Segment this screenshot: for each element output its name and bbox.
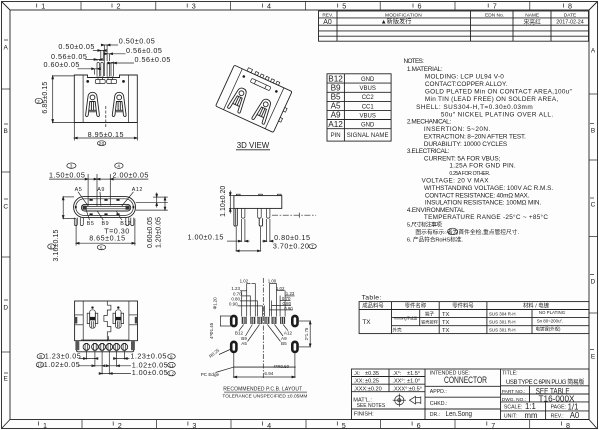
svg-text:0.25A FOR OTHER.: 0.25A FOR OTHER. <box>449 171 490 177</box>
dim 2*1.75 right <box>299 321 311 347</box>
svg-text:Min TIN (LEAD FREE) ON SOLDER: Min TIN (LEAD FREE) ON SOLDER AREA, <box>425 96 559 103</box>
svg-text:2.00±0.05: 2.00±0.05 <box>113 170 149 179</box>
svg-text:A12: A12 <box>284 330 293 335</box>
svg-text:APPD.:: APPD.: <box>430 389 447 395</box>
svg-text:1.23±0.05: 1.23±0.05 <box>130 352 166 361</box>
svg-text:电镀镍(外观): 电镀镍(外观) <box>536 326 561 333</box>
svg-text:材料 / 电镀: 材料 / 电镀 <box>523 302 550 310</box>
svg-text:20: 20 <box>99 141 105 146</box>
svg-text:8.95±0.15: 8.95±0.15 <box>88 130 124 139</box>
svg-text:SEE NOTES: SEE NOTES <box>357 403 386 409</box>
QC balloon 4 <box>115 163 123 168</box>
svg-text:EXTRACTION: 8~20N AFTER TEST.: EXTRACTION: 8~20N AFTER TEST. <box>424 134 526 141</box>
svg-text:±1.0°: ±1.0° <box>407 379 420 385</box>
shell inner oval <box>76 199 134 216</box>
svg-text:B5: B5 <box>331 93 341 102</box>
svg-text:C: C <box>3 204 8 211</box>
top view dimensions <box>48 163 168 262</box>
QC balloon 8.65 <box>97 245 105 250</box>
svg-text:1: 1 <box>43 421 47 430</box>
svg-text:CONTACT:COPPER ALLOY.: CONTACT:COPPER ALLOY. <box>425 81 508 88</box>
svg-text:6: 6 <box>418 2 422 11</box>
bottom contact right <box>113 306 124 328</box>
svg-text:Φ1.20: Φ1.20 <box>213 297 218 310</box>
extension line comb above pads <box>242 284 285 317</box>
svg-text:GOLD PLATED Min ON CONTACT ARE: GOLD PLATED Min ON CONTACT AREA,100u″ <box>425 89 573 96</box>
svg-text:±0.35: ±0.35 <box>365 371 379 377</box>
svg-text:mm: mm <box>525 411 538 420</box>
svg-text:E: E <box>4 376 9 383</box>
svg-text:.XX:: .XX: <box>354 379 365 385</box>
svg-text:12: 12 <box>168 371 174 376</box>
svg-text:2: 2 <box>117 2 121 11</box>
rivet dot right <box>122 80 125 83</box>
bottom view <box>75 301 138 352</box>
svg-text:B5: B5 <box>87 221 95 227</box>
svg-text:3.70±0.20: 3.70±0.20 <box>273 242 309 251</box>
dim 8.95 bottom <box>74 123 137 141</box>
svg-text:DWG. NO.:: DWG. NO.: <box>502 397 526 403</box>
side pins <box>241 208 270 218</box>
svg-text:USB TYPE C 6PIN PLUG 简易版: USB TYPE C 6PIN PLUG 简易版 <box>506 378 584 386</box>
side view dimensions <box>188 186 317 252</box>
svg-text:CC2: CC2 <box>362 95 375 101</box>
svg-text:4*R0.50: 4*R0.50 <box>273 364 289 369</box>
svg-text:图示有标示○者为首件全检,重点管控尺寸.: 图示有标示○者为首件全检,重点管控尺寸. <box>415 228 519 236</box>
shell outer oval <box>74 197 136 218</box>
svg-text:Table:: Table: <box>362 295 382 302</box>
svg-text:8.65±0.15: 8.65±0.15 <box>89 233 125 242</box>
svg-text:A9: A9 <box>331 111 341 120</box>
svg-text:MODIFICATION: MODIFICATION <box>385 12 422 18</box>
svg-text:C: C <box>591 202 596 209</box>
contact base bar <box>95 80 105 84</box>
svg-text:6: 6 <box>50 245 53 250</box>
svg-text:4: 4 <box>267 421 271 430</box>
svg-text:.X°:: .X°: <box>392 371 402 377</box>
dim 1.10 vertical <box>229 191 234 214</box>
svg-text:TITLE:: TITLE: <box>502 371 518 377</box>
svg-text:6.94: 6.94 <box>264 371 273 376</box>
svg-text:DR.:: DR.: <box>430 412 440 418</box>
svg-text:B9: B9 <box>331 84 341 93</box>
svg-text:Sn 80~200u″.: Sn 80~200u″. <box>537 318 564 323</box>
center line <box>105 106 107 128</box>
front view dimensions <box>35 37 171 147</box>
solder pads <box>83 343 128 350</box>
svg-text:CHKD.:: CHKD.: <box>430 401 448 407</box>
svg-text:CC1: CC1 <box>362 104 375 110</box>
svg-text:CONNECTOR: CONNECTOR <box>444 375 487 385</box>
svg-text:GND: GND <box>361 77 375 83</box>
svg-text:1.02±0.05: 1.02±0.05 <box>44 360 80 369</box>
svg-text:±0.25: ±0.25 <box>365 379 379 385</box>
svg-text:D: D <box>3 305 8 312</box>
svg-text:SCALE:: SCALE: <box>504 405 522 411</box>
mating axis line <box>272 213 316 218</box>
svg-text:1.25A FOR GND PIN.: 1.25A FOR GND PIN. <box>449 162 516 169</box>
svg-text:CONTACT RESISTANCE: 40mΩ MAX.: CONTACT RESISTANCE: 40mΩ MAX. <box>425 192 530 199</box>
svg-text:0.56±0.05: 0.56±0.05 <box>135 55 171 64</box>
svg-text:TX: TX <box>442 328 450 334</box>
3d contact tabs on top edge <box>247 68 280 86</box>
solder pad band <box>77 340 134 352</box>
svg-text:7: 7 <box>491 421 495 430</box>
svg-text:A12: A12 <box>328 120 343 129</box>
QC balloon 3.16 <box>48 244 55 249</box>
svg-text:铁壳按样: 铁壳按样 <box>421 319 438 326</box>
top view (mating face) <box>74 197 136 226</box>
shell spring marks <box>75 199 134 215</box>
rivet dot left <box>86 80 89 83</box>
3d latch left <box>227 86 250 114</box>
svg-text:DURABILITY: 10000 CYCLES: DURABILITY: 10000 CYCLES <box>424 141 507 148</box>
dim row 1.23 <box>37 354 45 359</box>
svg-text:宋亮红: 宋亮红 <box>523 18 541 26</box>
svg-text:SIGNAL NAME: SIGNAL NAME <box>347 133 389 139</box>
svg-text:A0: A0 <box>323 19 332 26</box>
dims 0.60 / 1.20 right vertical <box>136 193 168 211</box>
svg-text:PC Edge: PC Edge <box>201 372 220 377</box>
svg-text:TOLERANCE UNSPECIFIED ±0.05MM: TOLERANCE UNSPECIFIED ±0.05MM <box>222 394 307 400</box>
svg-text:VBUS: VBUS <box>360 113 376 119</box>
svg-text:SUS 301 R-H: SUS 301 R-H <box>489 320 516 325</box>
svg-text:B: B <box>4 128 8 135</box>
svg-text:VOLTAGE: 20 V MAX: VOLTAGE: 20 V MAX <box>422 177 490 184</box>
dim row 1.02 <box>36 362 44 367</box>
svg-text:A9: A9 <box>97 187 105 193</box>
svg-text:.XXX°:±0.5°: .XXX°:±0.5° <box>392 386 422 392</box>
tongue <box>81 204 130 211</box>
center line <box>262 278 264 378</box>
svg-text:±1.5°: ±1.5° <box>407 371 420 377</box>
svg-text:A0: A0 <box>570 411 580 420</box>
svg-text:5. 尺寸标注事项:: 5. 尺寸标注事项: <box>407 221 443 229</box>
svg-text:.XX°:: .XX°: <box>392 379 405 385</box>
QC balloon 3 <box>67 163 76 168</box>
svg-text:7: 7 <box>311 244 314 249</box>
svg-text:SHELL: SUS304-H,T=0.30±0.03mm: SHELL: SUS304-H,T=0.30±0.03mm <box>416 104 533 111</box>
svg-text:10: 10 <box>37 363 43 368</box>
side strip lines <box>75 315 138 325</box>
svg-text:5: 5 <box>100 245 103 250</box>
top bumps <box>237 194 282 195</box>
svg-text:4: 4 <box>267 2 271 11</box>
svg-text:TX: TX <box>362 319 371 326</box>
svg-text:2: 2 <box>37 99 40 104</box>
svg-text:2*1.75: 2*1.75 <box>304 327 309 340</box>
svg-text:UNIT:: UNIT: <box>504 413 517 419</box>
svg-text:REV.:: REV.: <box>551 413 564 419</box>
svg-text:1.00±0.05: 1.00±0.05 <box>132 368 168 377</box>
svg-text:3: 3 <box>192 421 196 430</box>
svg-text:8: 8 <box>39 354 42 359</box>
svg-text:1.00±0.15: 1.00±0.15 <box>188 233 224 242</box>
svg-text:B5: B5 <box>281 341 287 346</box>
svg-text:molding字成品: molding字成品 <box>394 316 418 321</box>
svg-text:NAME: NAME <box>525 12 539 18</box>
svg-text:NOTES:: NOTES: <box>404 58 425 65</box>
svg-text:0.50±0.05: 0.50±0.05 <box>119 37 155 46</box>
front view of connector <box>74 62 137 128</box>
bottom view dimensions <box>36 351 175 377</box>
svg-text:8: 8 <box>566 421 570 430</box>
svg-text:MOLDING: LCP UL94 V-0: MOLDING: LCP UL94 V-0 <box>425 73 504 80</box>
bottom contact left <box>87 306 98 328</box>
svg-text:A5: A5 <box>331 102 341 111</box>
svg-text:▲新版发行: ▲新版发行 <box>381 18 412 26</box>
svg-text:零件料号: 零件料号 <box>452 302 474 310</box>
svg-text:1: 1 <box>41 2 45 11</box>
smt pads <box>242 317 285 324</box>
svg-text:0.80±0.15: 0.80±0.15 <box>274 233 310 242</box>
svg-text:INSULATION RESISTANCE: 100MΩ M: INSULATION RESISTANCE: 100MΩ MIN. <box>425 200 542 207</box>
QC balloon 8.95 <box>97 141 105 146</box>
svg-text:TX: TX <box>442 320 450 326</box>
dim 6.85 left vertical <box>52 76 74 123</box>
latch spring left <box>86 92 100 116</box>
svg-text:6: 6 <box>417 421 421 430</box>
pad labels <box>235 330 293 345</box>
svg-text:1.00: 1.00 <box>268 278 277 283</box>
svg-text:5: 5 <box>342 421 346 430</box>
svg-text:50u″ NICKEL PLATING OVER ALL.: 50u″ NICKEL PLATING OVER ALL. <box>441 111 553 118</box>
side view <box>234 194 316 226</box>
svg-text:TX: TX <box>442 312 450 318</box>
revision table <box>319 11 589 41</box>
svg-text:2: 2 <box>118 421 122 430</box>
svg-text:6. 产品符合RoHS标准.: 6. 产品符合RoHS标准. <box>407 235 463 243</box>
svg-text:4*Φ1.45: 4*Φ1.45 <box>209 322 214 339</box>
3d contact base bar <box>250 78 271 90</box>
bottom body <box>75 301 138 341</box>
QC balloon 6.85 <box>35 98 42 103</box>
svg-text:3.ELECTRICAL:: 3.ELECTRICAL: <box>407 148 450 155</box>
svg-text:6.85±0.15: 6.85±0.15 <box>42 82 49 114</box>
svg-text:零件名称: 零件名称 <box>405 302 427 310</box>
3d side tabs <box>283 107 287 112</box>
shell inner wall left <box>82 75 84 123</box>
ext lines from pads <box>86 351 124 375</box>
pin labels A5 A9 A12 <box>75 187 143 193</box>
svg-text:A: A <box>4 45 9 52</box>
svg-text:E: E <box>591 354 596 361</box>
3d rivet dots <box>242 75 245 78</box>
svg-text:A5: A5 <box>241 341 247 346</box>
svg-text:SUS 301 R-H: SUS 301 R-H <box>489 328 516 333</box>
svg-text:1.20±0.05: 1.20±0.05 <box>156 217 163 248</box>
svg-text:0.60±0.05: 0.60±0.05 <box>147 217 154 248</box>
svg-text:3.16±0.15: 3.16±0.15 <box>53 230 60 262</box>
oval mounting pads <box>231 316 297 352</box>
svg-text:11: 11 <box>169 363 175 368</box>
svg-text:PART NO.:: PART NO.: <box>502 389 525 395</box>
svg-text:1.50±0.05: 1.50±0.05 <box>49 170 85 179</box>
svg-text:PIN: PIN <box>331 133 341 139</box>
svg-text:成品料号: 成品料号 <box>362 302 384 310</box>
svg-text:D: D <box>591 279 596 286</box>
svg-text:1:1: 1:1 <box>525 402 536 411</box>
svg-text:B12: B12 <box>235 330 244 335</box>
svg-text:0.56±0.05: 0.56±0.05 <box>126 46 162 55</box>
svg-text:EDN No.: EDN No. <box>485 12 504 18</box>
side body <box>234 196 282 209</box>
svg-text:3: 3 <box>192 2 196 11</box>
contact tails above shell <box>97 62 114 76</box>
svg-text:2.MECHANICAL:: 2.MECHANICAL: <box>407 119 451 126</box>
svg-text:TEMPERATURE RANGE -25°C ~ +85°: TEMPERATURE RANGE -25°C ~ +85°C <box>424 213 548 221</box>
svg-text:外壳: 外壳 <box>392 327 402 334</box>
svg-text:8: 8 <box>568 2 572 11</box>
svg-text:4: 4 <box>117 164 120 169</box>
recommended PCB layout <box>201 278 311 400</box>
svg-text:1.MATERIAL:: 1.MATERIAL: <box>407 66 443 73</box>
svg-text:1.10±0.20: 1.10±0.20 <box>220 186 227 217</box>
projection angle symbol <box>393 394 421 407</box>
pin labels B5 B9 B12 <box>87 221 131 227</box>
shell inner wall right <box>127 75 129 123</box>
dim 3.16 left vertical <box>62 197 76 219</box>
shell feet below <box>74 218 134 226</box>
front view shell body <box>74 75 137 123</box>
svg-text:4.ENVIRONMENTAL: 4.ENVIRONMENTAL <box>407 207 465 214</box>
svg-text:0.60±0.05: 0.60±0.05 <box>44 60 80 69</box>
svg-text:3: 3 <box>70 164 73 169</box>
svg-text:Len.Song: Len.Song <box>446 409 473 418</box>
svg-text:REV.: REV. <box>322 12 333 18</box>
parts table <box>359 295 589 335</box>
svg-text:SUS 304 R-H: SUS 304 R-H <box>489 311 516 316</box>
title block <box>352 369 590 420</box>
svg-text:1.02: 1.02 <box>240 278 249 283</box>
svg-text:B: B <box>591 128 595 135</box>
svg-text:INSERTION: 5~20N.: INSERTION: 5~20N. <box>424 126 491 133</box>
svg-text:A: A <box>591 48 596 55</box>
center seam <box>104 301 111 341</box>
latch spring right <box>112 92 126 116</box>
3d shell body <box>216 65 292 132</box>
hole dims left <box>220 316 231 326</box>
svg-text:3D VIEW: 3D VIEW <box>237 140 270 150</box>
svg-text:DATE: DATE <box>564 12 576 18</box>
pin assignment table <box>327 74 391 141</box>
3d latch right <box>251 97 274 125</box>
notes text <box>404 58 573 243</box>
svg-text:B12: B12 <box>328 74 343 83</box>
pc edge line <box>233 366 296 368</box>
svg-text:.X:: .X: <box>354 371 361 377</box>
svg-text:0.50±0.05: 0.50±0.05 <box>58 42 94 51</box>
svg-text:PAGE:: PAGE: <box>551 405 566 411</box>
dim row 1.00 <box>99 373 131 375</box>
svg-text:FINISH:: FINISH: <box>354 411 374 417</box>
svg-text:2017-02-24: 2017-02-24 <box>556 20 584 26</box>
svg-text:5: 5 <box>342 2 346 11</box>
svg-text:.XXX:±0.20: .XXX:±0.20 <box>354 386 382 392</box>
svg-text:端子: 端子 <box>425 311 435 318</box>
svg-text:GND: GND <box>361 123 375 129</box>
pcb dim texts <box>229 278 295 311</box>
svg-text:9: 9 <box>170 354 173 359</box>
3D view <box>216 62 296 150</box>
svg-text:VBUS: VBUS <box>360 86 376 92</box>
svg-text:7: 7 <box>493 2 497 11</box>
svg-text:NO PLATING: NO PLATING <box>539 310 566 315</box>
svg-text:WITHSTANDING VOLTAGE: 100V AC: WITHSTANDING VOLTAGE: 100V AC R.M.S. <box>424 185 553 192</box>
svg-text:1.23: 1.23 <box>231 286 240 291</box>
side legs <box>234 208 263 226</box>
svg-text:0.90: 0.90 <box>229 302 238 307</box>
